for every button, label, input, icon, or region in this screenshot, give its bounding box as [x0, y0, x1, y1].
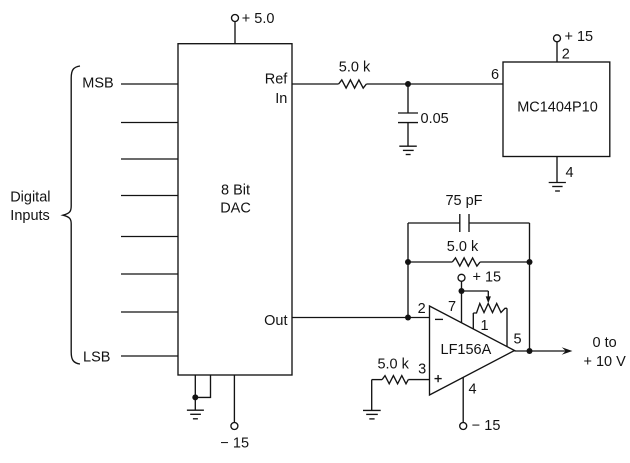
svg-text:5: 5: [514, 331, 522, 347]
svg-text:7: 7: [448, 299, 456, 315]
wire input bit 7: [121, 311, 178, 313]
wire to capacitor C2 left: [408, 222, 460, 224]
svg-text:+ 5.0: + 5.0: [242, 11, 275, 27]
wire C1 to ground: [407, 123, 409, 147]
wire feedback right vertical: [529, 223, 531, 351]
svg-text:4: 4: [469, 382, 477, 398]
capacitor C1 0.05: [398, 111, 449, 127]
svg-text:5.0 k: 5.0 k: [377, 357, 409, 373]
svg-text:Digital: Digital: [10, 189, 50, 205]
node A junction: [405, 81, 411, 87]
svg-text:Ref: Ref: [265, 72, 289, 88]
svg-text:Out: Out: [264, 313, 287, 329]
wire node B to op-amp pin 2: [408, 317, 430, 319]
wire junction to wiper: [462, 290, 489, 292]
svg-text:+ 15: + 15: [565, 29, 594, 45]
wire pot right terminal to pin 5: [506, 308, 508, 346]
svg-text:+ 10 V: + 10 V: [584, 354, 627, 370]
svg-text:− 15: − 15: [472, 418, 501, 434]
wire MSB input: [121, 83, 178, 85]
svg-text:6: 6: [491, 67, 499, 83]
resistor R2 5.0 k feedback: [447, 239, 480, 266]
power terminal -15 (U3): [460, 418, 501, 434]
svg-text:0.05: 0.05: [421, 111, 449, 127]
DAC U1 box "8 Bit DAC": [178, 44, 292, 375]
svg-text:DAC: DAC: [220, 200, 251, 216]
reference U2 box MC1404P10: [503, 62, 610, 157]
label Digital Inputs: [10, 189, 50, 224]
svg-text:MSB: MSB: [82, 75, 113, 91]
node B junction: [405, 315, 411, 321]
junction pin 7: [459, 288, 465, 294]
brace for digital inputs: [63, 66, 80, 364]
svg-text:LSB: LSB: [83, 349, 110, 365]
wire junction to op-amp pin 7: [461, 291, 463, 323]
wire op-amp pin 4 to -15 terminal: [462, 377, 464, 422]
wire DAC to -15 terminal: [233, 375, 235, 423]
svg-text:In: In: [275, 91, 287, 107]
svg-text:MC1404P10: MC1404P10: [517, 100, 598, 116]
svg-text:5.0 k: 5.0 k: [339, 60, 371, 76]
wire +15 terminal to U2 pin 2: [556, 42, 558, 62]
svg-text:5.0 k: 5.0 k: [447, 239, 479, 255]
wire capacitor C2 right: [469, 222, 530, 224]
svg-text:0 to: 0 to: [593, 335, 617, 351]
ground for R3: [363, 410, 381, 419]
svg-text:1: 1: [480, 318, 488, 334]
svg-text:8 Bit: 8 Bit: [221, 183, 250, 199]
svg-text:+ 15: + 15: [473, 269, 502, 285]
wire node A to capacitor C1: [407, 84, 409, 113]
svg-text:− 15: − 15: [220, 435, 249, 451]
svg-text:3: 3: [418, 361, 426, 377]
wire resistor R2 to right vertical: [480, 261, 529, 263]
svg-text:LF156A: LF156A: [441, 342, 492, 358]
power terminal +5.0: [232, 11, 275, 27]
wire LSB input: [121, 355, 178, 357]
wire input bit 6: [121, 273, 178, 275]
junction at R2 right: [527, 259, 533, 265]
power terminal +15 (U2): [554, 29, 594, 45]
plus input marker: [435, 375, 442, 382]
wire DAC ground stub 2: [195, 375, 210, 397]
junction DAC ground: [192, 394, 198, 400]
potentiometer R4 (offset adjust): [473, 304, 507, 314]
output node junction: [527, 348, 533, 354]
wire +15 to junction: [461, 281, 463, 291]
svg-text:2: 2: [418, 301, 426, 317]
wire DAC Out to node B: [292, 317, 408, 319]
resistor R3 5.0 k at pin 3: [377, 357, 409, 384]
minus input marker: [435, 318, 443, 320]
wire DAC Ref In to resistor R1: [292, 83, 339, 85]
wire input bit 3: [121, 158, 178, 160]
wire R3 left to ground: [372, 380, 382, 411]
power terminal +15 (U3): [458, 269, 501, 285]
wiper arrow of potentiometer: [486, 291, 491, 303]
wire U2 pin 4 to ground: [556, 156, 558, 183]
wire junction to ground: [194, 397, 196, 410]
op-amp U3 LF156A: [430, 306, 515, 395]
label output 0 to +10 V: [584, 335, 627, 370]
wire node A to MC1404 pin 6: [408, 83, 503, 85]
svg-text:Inputs: Inputs: [10, 208, 50, 224]
junction at R2 left: [405, 259, 411, 265]
svg-text:2: 2: [562, 46, 570, 62]
power terminal -15 (DAC): [220, 423, 249, 452]
svg-text:4: 4: [566, 165, 574, 181]
ground for DAC: [187, 410, 204, 419]
wire node to resistor R2: [408, 261, 452, 263]
ground for U2: [549, 183, 566, 192]
resistor R1 5.0 k: [339, 60, 371, 89]
wire output with arrow: [515, 347, 573, 355]
wire DAC ground stub 1: [194, 375, 196, 397]
wire input bit 5: [121, 236, 178, 238]
svg-text:75 pF: 75 pF: [445, 193, 482, 209]
ground for C1: [399, 146, 417, 154]
wire feedback left vertical: [407, 223, 409, 318]
wire input bit 2: [121, 122, 178, 124]
wire R1 to node A: [366, 83, 408, 85]
wire input bit 4: [121, 195, 178, 197]
pin label Ref In: [265, 72, 289, 108]
capacitor C2 75 pF: [445, 193, 482, 232]
wire +5.0 terminal to DAC top: [234, 21, 236, 43]
wire R3 to op-amp pin 3: [408, 379, 429, 381]
wire pot left terminal to pin 1: [472, 313, 474, 329]
